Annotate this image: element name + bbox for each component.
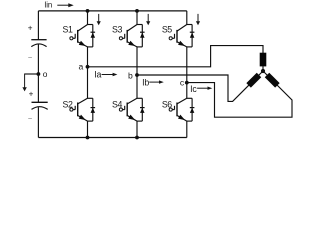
- node a: [86, 65, 90, 69]
- diode D3 (antiparallel): [137, 24, 142, 26]
- wire: S6 lower lead: [186, 121, 188, 137]
- svg-text:b: b: [128, 70, 133, 80]
- junction: S3 top: [135, 9, 139, 13]
- wire: phase a to load: [88, 46, 264, 67]
- svg-text:Ib: Ib: [142, 78, 149, 88]
- diode D1 (antiparallel): [88, 24, 93, 26]
- winding Lc (phase c): [265, 73, 280, 88]
- transistor S5 (IGBT): [177, 25, 187, 32]
- svg-text:o: o: [43, 69, 48, 79]
- wire: node o to C2: [37, 74, 39, 102]
- wire: S4 lower lead: [136, 121, 138, 137]
- wire: positive dc rail: [38, 10, 186, 12]
- capacitor C1: [31, 39, 46, 41]
- svg-text:c: c: [180, 78, 185, 88]
- winding La (phase a): [260, 53, 267, 67]
- wire: leg a upper lead: [87, 11, 89, 25]
- diode D4 (antiparallel): [137, 97, 142, 99]
- transistor S1 (IGBT): [78, 25, 88, 32]
- wire: phase c to load: [187, 71, 292, 117]
- wire: top winding to centre: [262, 66, 264, 71]
- wire: node a to S2: [87, 67, 89, 99]
- junction: S1 top: [86, 9, 90, 13]
- wire: node b to S4: [136, 75, 138, 98]
- svg-text:–: –: [28, 115, 32, 122]
- node o: [37, 72, 41, 76]
- diode D2 (antiparallel): [88, 97, 93, 99]
- svg-text:S3: S3: [112, 24, 122, 34]
- wire: S5 to node c: [186, 47, 188, 83]
- load neutral node: [261, 69, 265, 73]
- capacitor C2: [32, 101, 48, 103]
- svg-text:+: +: [28, 23, 33, 32]
- diode D5 (antiparallel): [187, 24, 192, 26]
- transistor S2 (IGBT): [78, 98, 88, 104]
- wire: node c to S6: [186, 83, 188, 99]
- svg-text:a: a: [79, 61, 84, 71]
- wire: S1 to node a: [87, 47, 89, 67]
- wire: leg c upper lead: [186, 11, 188, 25]
- current arrow into leg b: [147, 14, 149, 22]
- wire: leg b upper lead: [136, 11, 138, 25]
- junction: S2 bottom: [86, 136, 90, 140]
- transistor S4 (IGBT): [127, 98, 137, 104]
- wire: S2 lower lead: [87, 121, 89, 137]
- winding Lb (phase b): [246, 73, 261, 88]
- svg-text:+: +: [29, 90, 34, 99]
- wire: left rail lower: [37, 107, 39, 137]
- junction: S4 bottom: [135, 136, 139, 140]
- wire: negative dc rail: [38, 137, 186, 139]
- svg-text:S1: S1: [63, 24, 73, 34]
- current arrow into leg a: [98, 14, 100, 22]
- current arrow into leg c: [197, 14, 199, 22]
- transistor S6 (IGBT): [177, 98, 187, 104]
- node c: [185, 81, 189, 85]
- svg-text:S5: S5: [162, 24, 172, 34]
- svg-text:Iin: Iin: [44, 1, 52, 10]
- wire: S3 to node b: [136, 47, 138, 75]
- diode D6 (antiparallel): [187, 97, 192, 99]
- wire: left rail upper: [37, 11, 39, 40]
- wire: phase b to load: [137, 71, 263, 101]
- neutral stub with down arrow: [25, 73, 39, 75]
- node b: [135, 73, 139, 77]
- transistor S3 (IGBT): [127, 25, 137, 32]
- svg-text:Ia: Ia: [94, 70, 101, 80]
- svg-text:Ic: Ic: [190, 84, 197, 94]
- wire: C1 to node o: [37, 44, 39, 74]
- svg-text:–: –: [28, 54, 32, 61]
